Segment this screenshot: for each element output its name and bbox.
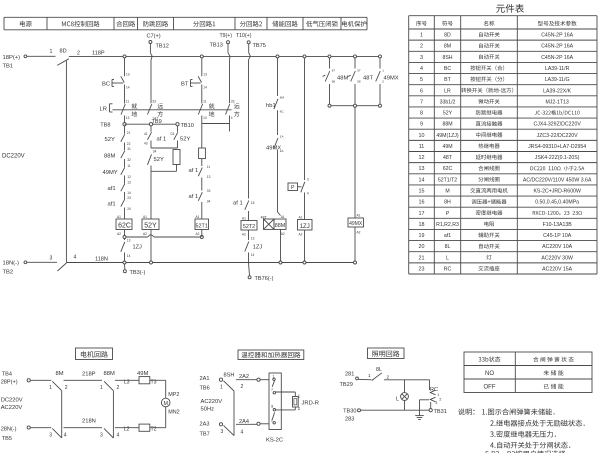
svg-text:88M: 88M — [104, 371, 115, 377]
selector LR local contact (close) — [121, 100, 137, 121]
svg-text:BC: BC — [102, 82, 110, 88]
svg-text:1: 1 — [420, 33, 423, 39]
wire 1ZJ to bottom rail — [248, 253, 250, 263]
svg-text:A1: A1 — [299, 216, 303, 220]
wire to 49MY contact — [124, 159, 126, 167]
contact 88M (close branch) — [104, 147, 131, 162]
terminal TB31 — [429, 409, 447, 415]
svg-text:18P(+): 18P(+) — [3, 55, 21, 61]
svg-text:33: 33 — [231, 100, 235, 104]
svg-text:8M: 8M — [56, 371, 64, 377]
svg-text:49M: 49M — [137, 371, 148, 377]
svg-text:af1: af1 — [108, 202, 116, 208]
svg-text:1ZJ: 1ZJ — [300, 224, 310, 230]
svg-text:TB9: TB9 — [152, 119, 162, 125]
svg-text:13: 13 — [251, 237, 255, 241]
resistor R2 (trip branch) — [199, 148, 206, 159]
component table 元件表 — [409, 4, 597, 274]
svg-text:31: 31 — [127, 147, 131, 151]
top rail 118P — [69, 55, 380, 57]
contact 48M — [323, 58, 349, 106]
contact af1 second (close branch) — [108, 196, 131, 211]
svg-text:TB7: TB7 — [200, 431, 210, 437]
svg-text:49MX: 49MX — [384, 76, 399, 82]
thermostat KS-2C box — [266, 373, 283, 444]
svg-text:13: 13 — [203, 116, 207, 120]
svg-text:11: 11 — [419, 144, 425, 150]
svg-text:A2: A2 — [143, 232, 147, 236]
svg-text:49MY: 49MY — [103, 170, 118, 176]
contact af1 (trip coil 2 branch) — [233, 201, 255, 210]
title box 电机回路 — [76, 348, 113, 360]
bottom rail 118N — [66, 262, 356, 264]
header table: circuit section labels — [4, 17, 367, 30]
contact af1 (remote close) — [144, 132, 166, 146]
wire TB8-TB9-TB10 horizontal — [125, 123, 178, 125]
svg-text:C45-1P 10A: C45-1P 10A — [543, 233, 572, 239]
wire merge to resistor R2 — [201, 124, 203, 149]
wire af1 to split junction — [150, 141, 152, 149]
svg-text:A2: A2 — [357, 231, 361, 235]
svg-text:af1: af1 — [108, 186, 116, 192]
node on bottom rail TB9 branch — [150, 261, 153, 264]
svg-text:2: 2 — [77, 51, 80, 57]
svg-text:JSK4-22Z(0.1-20S): JSK4-22Z(0.1-20S) — [535, 155, 580, 161]
wire LR remote to merge bus — [229, 116, 231, 132]
terminal TB1 18P(+) — [3, 55, 27, 70]
svg-text:3: 3 — [50, 256, 53, 262]
wire TB75 down with crossover jog — [249, 44, 251, 199]
wire TB9 down — [150, 126, 152, 132]
svg-text:A1: A1 — [143, 215, 147, 219]
svg-text:3: 3 — [221, 429, 224, 435]
svg-text:TB13: TB13 — [210, 43, 223, 49]
svg-text:13: 13 — [207, 175, 211, 179]
svg-text:C7(+): C7(+) — [147, 34, 161, 40]
svg-text:20: 20 — [419, 244, 425, 250]
relay coil 49MX — [348, 214, 364, 235]
svg-text:49M: 49M — [442, 144, 452, 150]
wire LR to merge bus — [201, 116, 203, 124]
wire to af1 contact — [124, 176, 126, 184]
breaker 8D bottom labels — [50, 255, 108, 263]
svg-text:A1: A1 — [196, 215, 200, 219]
svg-text:TB8: TB8 — [100, 123, 110, 129]
svg-text:TB2: TB2 — [3, 270, 14, 276]
wire to closing coil 62C — [124, 208, 126, 220]
svg-text:CJX4-329Z/DC220V: CJX4-329Z/DC220V — [534, 122, 582, 128]
wire 8L to lamp junction and RC corner — [384, 379, 430, 381]
svg-text:DC220V: DC220V — [2, 154, 25, 160]
svg-text:2: 2 — [439, 398, 441, 402]
tie wire 62C return to 52T1 coil return at y237 — [123, 235, 203, 239]
svg-text:MP2: MP2 — [168, 392, 179, 398]
wire 49MX coil to bottom rail — [354, 227, 356, 263]
svg-text:52T2: 52T2 — [243, 224, 255, 230]
terminal TB5 28N(-) — [1, 426, 31, 442]
svg-text:9: 9 — [420, 122, 423, 128]
svg-text:8M: 8M — [444, 44, 451, 50]
svg-text:1: 1 — [437, 393, 439, 397]
svg-text:A2: A2 — [117, 232, 121, 236]
svg-text:88M: 88M — [275, 223, 286, 229]
switch 8SH bottom pole — [221, 419, 249, 436]
svg-text:18: 18 — [419, 222, 425, 228]
svg-text:BT: BT — [181, 82, 189, 88]
svg-text:AC220V: AC220V — [1, 405, 23, 411]
svg-text:14: 14 — [127, 254, 131, 258]
svg-text:TB29: TB29 — [340, 382, 353, 388]
state table 33b — [464, 352, 592, 393]
svg-text:LA39-22X/K: LA39-22X/K — [543, 88, 572, 94]
resistor R1 (right path) — [173, 150, 180, 165]
svg-text:118P: 118P — [92, 51, 105, 57]
svg-text:14: 14 — [126, 86, 130, 90]
svg-text:C45N-2P 16A: C45N-2P 16A — [541, 44, 573, 50]
svg-text:TB5: TB5 — [2, 436, 12, 442]
switch 8L — [358, 367, 389, 381]
wire to trip coil 52T1 — [201, 202, 203, 219]
wire P to 1ZJ coil — [304, 193, 306, 220]
timer 48T indicator box — [261, 216, 275, 230]
node TB10 — [176, 123, 194, 129]
svg-text:49M(1ZJ): 49M(1ZJ) — [436, 133, 458, 139]
svg-text:17: 17 — [419, 211, 425, 217]
svg-text:D1: D1 — [171, 132, 175, 136]
switch 8SH top pole — [220, 373, 249, 392]
svg-text:48T: 48T — [363, 76, 373, 82]
contact 49MX spring group — [376, 58, 399, 106]
svg-text:AC220V 30W: AC220V 30W — [541, 255, 573, 261]
svg-text:A2: A2 — [196, 232, 200, 236]
wire rail to pressure contact — [304, 58, 306, 180]
notes 说明 — [458, 408, 585, 453]
svg-text:2: 2 — [271, 419, 273, 423]
svg-text:TB30: TB30 — [343, 409, 356, 415]
terminal TB6 2A1 — [200, 376, 223, 392]
svg-text:MN2: MN2 — [168, 410, 179, 416]
svg-text:L: L — [446, 255, 449, 261]
svg-text:1: 1 — [100, 385, 103, 391]
svg-text:NO: NO — [485, 371, 494, 377]
svg-text:1: 1 — [50, 49, 53, 55]
pressure switch P — [288, 178, 309, 196]
svg-text:52Y: 52Y — [144, 223, 157, 230]
contact 48T — [348, 58, 373, 106]
svg-text:5: 5 — [420, 77, 423, 83]
svg-text:14: 14 — [203, 86, 207, 90]
svg-text:13: 13 — [203, 73, 207, 77]
node rail 49MX contact — [379, 55, 382, 58]
terminal TB75 T10(+) — [236, 33, 266, 49]
svg-text:A1: A1 — [281, 215, 285, 219]
wire 52T2 to 1ZJ contact — [248, 230, 250, 240]
wire 8SH to KS-2C top — [236, 378, 269, 381]
thermal element 49M top L3-T3 — [124, 371, 157, 385]
svg-text:8: 8 — [271, 405, 273, 409]
terminal TB13 T9(+) — [210, 33, 233, 49]
svg-text:1ZJ: 1ZJ — [133, 245, 143, 251]
breaker 8M top pole — [49, 371, 68, 391]
svg-text:6M: 6M — [280, 96, 285, 100]
svg-text:28P(+): 28P(+) — [1, 379, 18, 385]
node on top rail for close circuit — [123, 55, 126, 58]
contact af1 first (trip branch) — [189, 165, 211, 179]
breaker 8D bottom blade — [57, 263, 66, 271]
svg-text:11: 11 — [203, 100, 207, 104]
svg-text:A1: A1 — [242, 217, 246, 221]
wire 8M to 88M contact top — [64, 379, 103, 381]
svg-text:JRS4-09310+LA7-D2954: JRS4-09310+LA7-D2954 — [528, 144, 586, 150]
svg-text:1ZJ: 1ZJ — [253, 245, 263, 251]
svg-text:TB1: TB1 — [3, 64, 14, 70]
svg-text:af 1: af 1 — [233, 201, 243, 207]
svg-text:14: 14 — [251, 253, 255, 257]
svg-text:2A2: 2A2 — [239, 374, 249, 380]
wire rail to BT button — [201, 58, 203, 76]
svg-text:LA39-11/R: LA39-11/R — [545, 66, 570, 72]
wire af1 to 52T2 coil — [248, 211, 250, 221]
contact 49MX (motor branch) — [266, 135, 283, 154]
svg-text:16: 16 — [419, 200, 425, 206]
svg-text:218N: 218N — [82, 418, 96, 424]
svg-text:BT: BT — [444, 77, 451, 83]
svg-text:AC/DC220V/110V 450W 3.6A: AC/DC220V/110V 450W 3.6A — [523, 177, 592, 183]
svg-text:3: 3 — [420, 55, 423, 61]
node rail 48M contact — [328, 55, 331, 58]
svg-text:52Y: 52Y — [180, 137, 190, 143]
svg-text:62C: 62C — [443, 166, 453, 172]
svg-text:1: 1 — [368, 373, 371, 378]
bottom line of lighting circuit — [361, 409, 430, 411]
svg-text:2: 2 — [420, 44, 423, 50]
svg-text:8: 8 — [420, 111, 423, 117]
svg-text:88M: 88M — [104, 154, 115, 160]
terminal TB4 28P(+) — [1, 372, 31, 386]
svg-text:MJ2-1T13: MJ2-1T13 — [545, 99, 568, 105]
svg-text:AC220V 15A: AC220V 15A — [542, 266, 573, 272]
svg-text:2: 2 — [387, 375, 390, 380]
wire 88M coil to bottom rail — [280, 229, 282, 262]
node on bottom rail close branch — [123, 261, 126, 264]
svg-text:8D: 8D — [60, 49, 67, 55]
svg-text:8H: 8H — [444, 200, 451, 206]
svg-text:52Y: 52Y — [443, 111, 453, 117]
svg-text:L3: L3 — [124, 379, 130, 385]
wire 62C to 1ZJ contact — [124, 230, 126, 236]
node on bottom rail 49MX branch — [354, 261, 357, 264]
wire to af1 second — [201, 178, 203, 191]
selector switch LR operator and linkage bar — [100, 104, 232, 113]
svg-text:TB3(-): TB3(-) — [130, 270, 146, 276]
limit switch hb1 — [266, 96, 284, 114]
push button BC — [102, 73, 130, 90]
svg-text:P: P — [446, 211, 450, 217]
svg-text:TB76(-): TB76(-) — [255, 276, 274, 282]
svg-text:3: 3 — [307, 178, 309, 182]
svg-text:7: 7 — [420, 99, 423, 105]
svg-text:4: 4 — [117, 433, 120, 439]
title box 温控器和加热器回路 — [238, 350, 304, 360]
left vertical rail from 8D — [65, 61, 67, 263]
label AC220V 50Hz — [201, 399, 223, 412]
8M linkage bar — [61, 391, 63, 438]
svg-text:2: 2 — [117, 385, 120, 391]
thermal element 49M bottom L2-T2 — [124, 424, 157, 433]
svg-text:0.50,0.45,0.40MPa: 0.50,0.45,0.40MPa — [535, 200, 579, 206]
breaker 8D top blade — [57, 59, 69, 66]
svg-text:A2: A2 — [299, 233, 303, 237]
wire 52Y coil to bottom rail — [150, 230, 152, 263]
svg-text:AC220V 10A: AC220V 10A — [542, 244, 573, 250]
svg-text:32: 32 — [127, 158, 131, 162]
svg-text:3: 3 — [100, 432, 103, 438]
anti-pumping relay coil 52Y — [142, 215, 159, 236]
closing coil 62C — [116, 215, 132, 236]
svg-text:2: 2 — [241, 384, 244, 390]
svg-text:11: 11 — [126, 100, 130, 104]
node on top rail pressure interlock — [303, 55, 306, 58]
wire 1ZJ coil to bottom rail — [304, 230, 306, 263]
88M linkage bar — [112, 391, 114, 438]
svg-text:af 1: af 1 — [157, 137, 167, 143]
svg-text:33: 33 — [207, 189, 211, 193]
breaker 8M bottom pole — [49, 428, 67, 438]
wire KS-2C pin7 to heater — [276, 392, 296, 397]
contactor 88M main contact bottom — [100, 428, 120, 438]
contactor coil 88M — [274, 215, 286, 236]
svg-text:52Y: 52Y — [105, 137, 115, 143]
svg-text:28N(-): 28N(-) — [1, 426, 17, 432]
wire resistor to af1 — [201, 159, 203, 166]
svg-text:62C: 62C — [118, 223, 131, 230]
svg-text:TB6: TB6 — [200, 386, 210, 392]
8SH linkage bar — [233, 391, 235, 436]
svg-text:58: 58 — [357, 80, 361, 84]
svg-text:2: 2 — [298, 406, 301, 411]
svg-text:8SH: 8SH — [224, 373, 235, 379]
svg-text:A1: A1 — [357, 214, 361, 218]
svg-text:8D: 8D — [444, 33, 451, 39]
svg-text:1: 1 — [382, 69, 384, 73]
wire TB2 to breaker 8D bottom — [27, 261, 57, 263]
svg-text:34: 34 — [153, 150, 157, 154]
svg-text:A2: A2 — [242, 233, 246, 237]
svg-text:2A3: 2A3 — [200, 422, 210, 428]
svg-text:6: 6 — [420, 88, 423, 94]
selector LR remote contact (trip) — [226, 100, 240, 121]
svg-text:A2: A2 — [281, 232, 285, 236]
wire LR to TB8 — [124, 116, 126, 123]
svg-text:4: 4 — [231, 116, 233, 120]
svg-text:C45N-2P 16A: C45N-2P 16A — [541, 33, 573, 39]
svg-text:23: 23 — [127, 196, 131, 200]
svg-text:1A: 1A — [280, 135, 284, 139]
contact 49MY (close branch) — [103, 164, 131, 179]
contact af1 first (close branch) — [108, 180, 131, 195]
svg-text:4: 4 — [241, 430, 244, 436]
wire T2 to motor bottom — [150, 427, 166, 429]
svg-text:12: 12 — [419, 155, 425, 161]
svg-text:LR: LR — [100, 107, 107, 113]
contact 52Y self-hold (TB10 branch) — [171, 132, 191, 143]
svg-text:48T: 48T — [443, 155, 453, 161]
svg-text:TB10: TB10 — [181, 123, 194, 129]
wire TB5 to 8M bottom — [30, 427, 51, 429]
trip coil 52T1 — [195, 215, 209, 236]
svg-text:10: 10 — [419, 133, 425, 139]
svg-text:23: 23 — [419, 266, 425, 272]
svg-text:R1,R2,R3: R1,R2,R3 — [436, 222, 459, 228]
svg-text:T10(+): T10(+) — [236, 33, 252, 39]
svg-text:TB75: TB75 — [253, 43, 266, 49]
wire 8M to 88M bottom — [64, 427, 103, 429]
motor M — [161, 392, 179, 416]
node TB8 — [100, 123, 126, 129]
wire to af1 second — [124, 192, 126, 199]
ground symbol — [415, 416, 424, 420]
svg-text:14: 14 — [419, 177, 425, 183]
svg-text:52T1: 52T1 — [196, 223, 208, 229]
svg-text:49MX: 49MX — [349, 221, 363, 227]
svg-text:22: 22 — [127, 142, 131, 146]
wire socket ground pin — [420, 400, 430, 416]
svg-text:13: 13 — [126, 116, 130, 120]
svg-text:JRD-R: JRD-R — [302, 401, 319, 407]
terminal TB7 2A3 — [200, 422, 223, 438]
svg-text:A1: A1 — [117, 215, 121, 219]
svg-text:F10-13A13B: F10-13A13B — [543, 222, 573, 228]
wire TB1 to breaker 8D — [27, 55, 56, 57]
svg-text:21: 21 — [127, 131, 131, 135]
trip coil 52T2 — [241, 217, 257, 237]
selector LR remote contact (close) — [148, 100, 164, 121]
svg-text:LA39-11/G: LA39-11/G — [545, 77, 570, 83]
terminal TB3(-) — [123, 264, 145, 276]
socket RC — [430, 387, 441, 409]
svg-text:M: M — [445, 188, 449, 194]
terminal TB29 281 — [340, 371, 359, 388]
relay coil 1ZJ — [298, 216, 313, 237]
svg-text:15: 15 — [419, 188, 425, 194]
svg-text:1: 1 — [220, 385, 223, 391]
wire 52Y contact to rejoin — [150, 166, 152, 172]
svg-text:6C: 6C — [280, 110, 285, 114]
title box 照明回路 — [368, 348, 405, 359]
contactor 88M main contact top — [100, 371, 120, 391]
svg-text:13: 13 — [126, 73, 130, 77]
svg-text:C45N-2P 16A: C45N-2P 16A — [541, 55, 573, 61]
wire to 88M contact — [124, 143, 126, 151]
wire heater to KS-2C pin8 — [276, 407, 296, 410]
svg-text:15: 15 — [251, 201, 255, 205]
svg-text:52Y: 52Y — [154, 157, 164, 163]
svg-text:af1: af1 — [444, 233, 451, 239]
wire 49MX to 88M coil — [278, 150, 281, 216]
svg-text:2A: 2A — [280, 149, 284, 153]
wire motor to bottom line — [165, 407, 167, 428]
wire TB13 down with crossover jog — [228, 44, 230, 104]
selector LR local contact (trip) — [198, 100, 214, 121]
svg-text:M: M — [163, 401, 168, 407]
svg-text:88M: 88M — [442, 122, 452, 128]
wire 88M to 49M heater top — [115, 379, 139, 381]
svg-text:52T1/T2: 52T1/T2 — [438, 177, 457, 183]
svg-text:33b1/2: 33b1/2 — [440, 99, 456, 105]
wire TB4 to 8M — [30, 379, 51, 381]
terminal TB76(-) — [248, 263, 273, 283]
contact 52Y anti-pump (left path) — [148, 150, 164, 165]
